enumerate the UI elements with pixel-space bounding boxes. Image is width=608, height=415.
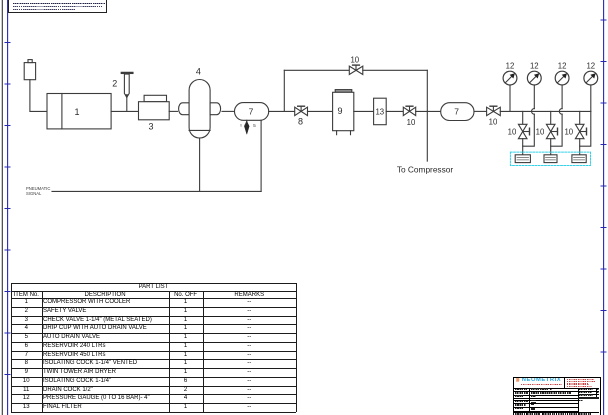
wire compressor to check valve	[111, 110, 138, 112]
svg-text:12: 12	[586, 61, 595, 70]
svg-text:SIGNAL: SIGNAL	[26, 191, 42, 196]
wire valve 8 to dryer 9	[308, 110, 333, 112]
branch wire 1 upper	[522, 111, 524, 124]
left form hlines	[514, 391, 578, 392]
wire 3 to vessel 4	[169, 110, 177, 112]
wire gauge 12c down	[551, 114, 562, 146]
address cell	[565, 378, 599, 388]
consumer box 2	[544, 155, 557, 163]
note box top-left	[8, 0, 108, 13]
vessel 4 left nozzle	[179, 103, 190, 115]
final filter 13	[374, 98, 387, 125]
wire 7b to valve 10b	[474, 110, 487, 112]
svg-text:2: 2	[112, 79, 117, 89]
bypass left riser wire	[283, 70, 285, 111]
manifold wire	[500, 110, 591, 112]
svg-text:10: 10	[508, 127, 517, 136]
drain cock 10f	[575, 124, 586, 138]
right column rows	[578, 391, 599, 392]
title block	[513, 377, 602, 415]
frame zone ticks left	[5, 43, 10, 375]
wire 4 to reservoir 7a	[222, 110, 235, 112]
svg-text:10: 10	[564, 127, 573, 136]
svg-text:6: 6	[240, 124, 242, 128]
wire filter 13 to valve 10a	[386, 110, 403, 112]
svg-text:13: 13	[375, 107, 384, 116]
auto drain valve 5	[244, 120, 249, 134]
wire gauge 12d down	[580, 111, 591, 146]
branch wire 3 lower	[579, 139, 581, 155]
drain cock 10e	[546, 124, 557, 138]
drain wire from reservoir 7a	[260, 120, 262, 191]
svg-text:8: 8	[298, 116, 303, 126]
svg-text:12: 12	[506, 61, 515, 70]
svg-text:12: 12	[530, 61, 539, 70]
pneumatic signal wire	[52, 190, 261, 192]
reservoir 7b	[441, 103, 474, 121]
wire intake to compressor	[30, 80, 47, 112]
svg-text:10: 10	[536, 127, 545, 136]
bottom strip blobs	[515, 413, 525, 415]
svg-text:1: 1	[74, 107, 79, 117]
bypass right riser wire	[426, 70, 428, 111]
drain wire from vessel 4	[199, 138, 201, 191]
form frame lines	[514, 388, 599, 389]
svg-text:7: 7	[249, 107, 254, 117]
svg-text:12: 12	[558, 61, 567, 70]
bypass top wire right	[363, 69, 428, 71]
frame blue right border	[603, 0, 605, 415]
valve 10a	[403, 106, 415, 115]
svg-text:3: 3	[148, 121, 153, 131]
consumers highlight box	[510, 152, 590, 165]
wire hop gauge 12b	[532, 109, 535, 115]
drain cock 10d	[518, 124, 529, 138]
valve 10b	[487, 106, 501, 115]
svg-text:10: 10	[407, 118, 416, 127]
wire dryer 9 to filter 13	[354, 110, 374, 112]
svg-text:To Compressor: To Compressor	[397, 164, 453, 174]
valve 8	[295, 106, 308, 115]
branch wire 3 upper	[579, 111, 581, 124]
twin tower air dryer 9	[333, 90, 354, 135]
logo cell	[514, 378, 565, 388]
branch wire 2 lower	[550, 139, 552, 155]
consumer box 3	[572, 155, 586, 163]
branch wire 2 upper	[550, 111, 552, 124]
svg-text:9: 9	[337, 106, 342, 116]
left form value blobs	[531, 388, 548, 390]
left form label blobs	[515, 389, 528, 391]
reservoir 7a	[235, 103, 269, 121]
svg-text:7: 7	[454, 107, 459, 117]
pressure gauge 12a	[503, 71, 517, 111]
consumer box 1	[515, 155, 530, 163]
vessel 4	[189, 80, 210, 139]
wire hop gauge 12c	[559, 109, 562, 115]
wire to compressor return	[426, 111, 428, 161]
svg-text:4: 4	[196, 67, 201, 77]
svg-text:10: 10	[489, 117, 498, 126]
branch wire 1 lower	[522, 139, 524, 155]
valve 10c	[349, 65, 363, 74]
compressor C1	[47, 94, 111, 129]
wire 7a to valve 8	[269, 110, 295, 112]
frame zone ticks right	[601, 20, 606, 352]
frame blue left border	[7, 0, 9, 415]
bypass top wire	[284, 69, 349, 71]
check valve 3	[139, 95, 170, 119]
vessel 4 right nozzle	[210, 103, 221, 115]
pressure gauge 12b	[527, 71, 541, 108]
wire gauge 12b down	[523, 114, 535, 146]
pressure gauge 12d	[584, 71, 598, 111]
wire valve 10a to reservoir 7b	[416, 110, 441, 112]
svg-text:10: 10	[350, 56, 359, 65]
svg-text:5: 5	[253, 123, 256, 129]
pressure gauge 12c	[555, 71, 569, 108]
page frame black outer line	[1, 0, 3, 415]
safety valve 2	[122, 73, 133, 112]
intake filter	[24, 60, 35, 80]
